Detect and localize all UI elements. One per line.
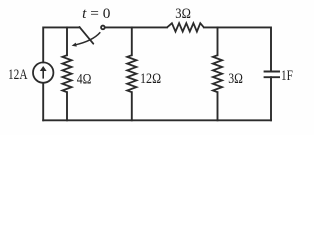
wire top-left rail <box>43 27 79 62</box>
wire 3-ohm branch top <box>217 27 219 55</box>
wire right side upper + top-right rail <box>204 27 271 71</box>
wire 4-ohm branch top <box>66 27 68 55</box>
wire 12-ohm branch top <box>131 27 133 55</box>
wire right side lower <box>270 77 272 120</box>
capacitor C1 plates <box>264 72 280 78</box>
switch arrowhead <box>72 43 77 47</box>
svg-text:12A: 12A <box>8 67 28 83</box>
wire 3-ohm branch bottom <box>217 92 219 120</box>
svg-text:4Ω: 4Ω <box>77 72 92 88</box>
svg-text:t = 0: t = 0 <box>82 6 110 22</box>
switch motion arc <box>75 32 101 45</box>
svg-text:12Ω: 12Ω <box>140 71 161 87</box>
resistor R2 12ohm zigzag <box>127 55 136 92</box>
svg-text:3Ω: 3Ω <box>228 71 243 87</box>
resistor R4 3ohm vertical zigzag <box>213 55 222 92</box>
svg-text:1F: 1F <box>281 68 293 84</box>
wire top middle (contact to resistor) <box>105 26 167 28</box>
current source I1 12A <box>33 62 53 82</box>
wire 4-ohm branch bottom <box>66 92 68 120</box>
resistor R3 3ohm horizontal zigzag <box>167 23 204 31</box>
wire left bottom <box>42 83 44 120</box>
wire 12-ohm branch bottom <box>131 92 133 120</box>
svg-text:3Ω: 3Ω <box>175 6 191 22</box>
wire bottom rail <box>43 119 271 121</box>
switch blade <box>79 27 93 44</box>
current source arrow <box>40 66 47 79</box>
switch contact terminal <box>101 26 105 30</box>
resistor R1 4ohm zigzag <box>62 55 71 92</box>
switch SW1 <box>72 26 105 47</box>
